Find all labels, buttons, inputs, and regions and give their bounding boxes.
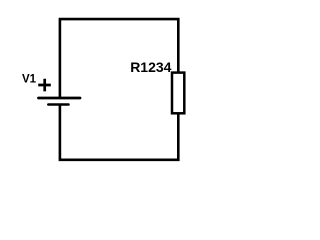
wire: left-top-right loop from battery positive up and around to resistor top [60,19,178,98]
svg-text:R1234: R1234 [130,59,171,75]
battery V1 positive plate [39,97,81,100]
battery V1 negative plate [48,103,68,106]
plus polarity marker [38,79,51,92]
wire: resistor bottom down and around bottom to battery negative [60,105,178,160]
resistor R1234 body [172,73,184,114]
svg-text:V1: V1 [22,74,37,86]
